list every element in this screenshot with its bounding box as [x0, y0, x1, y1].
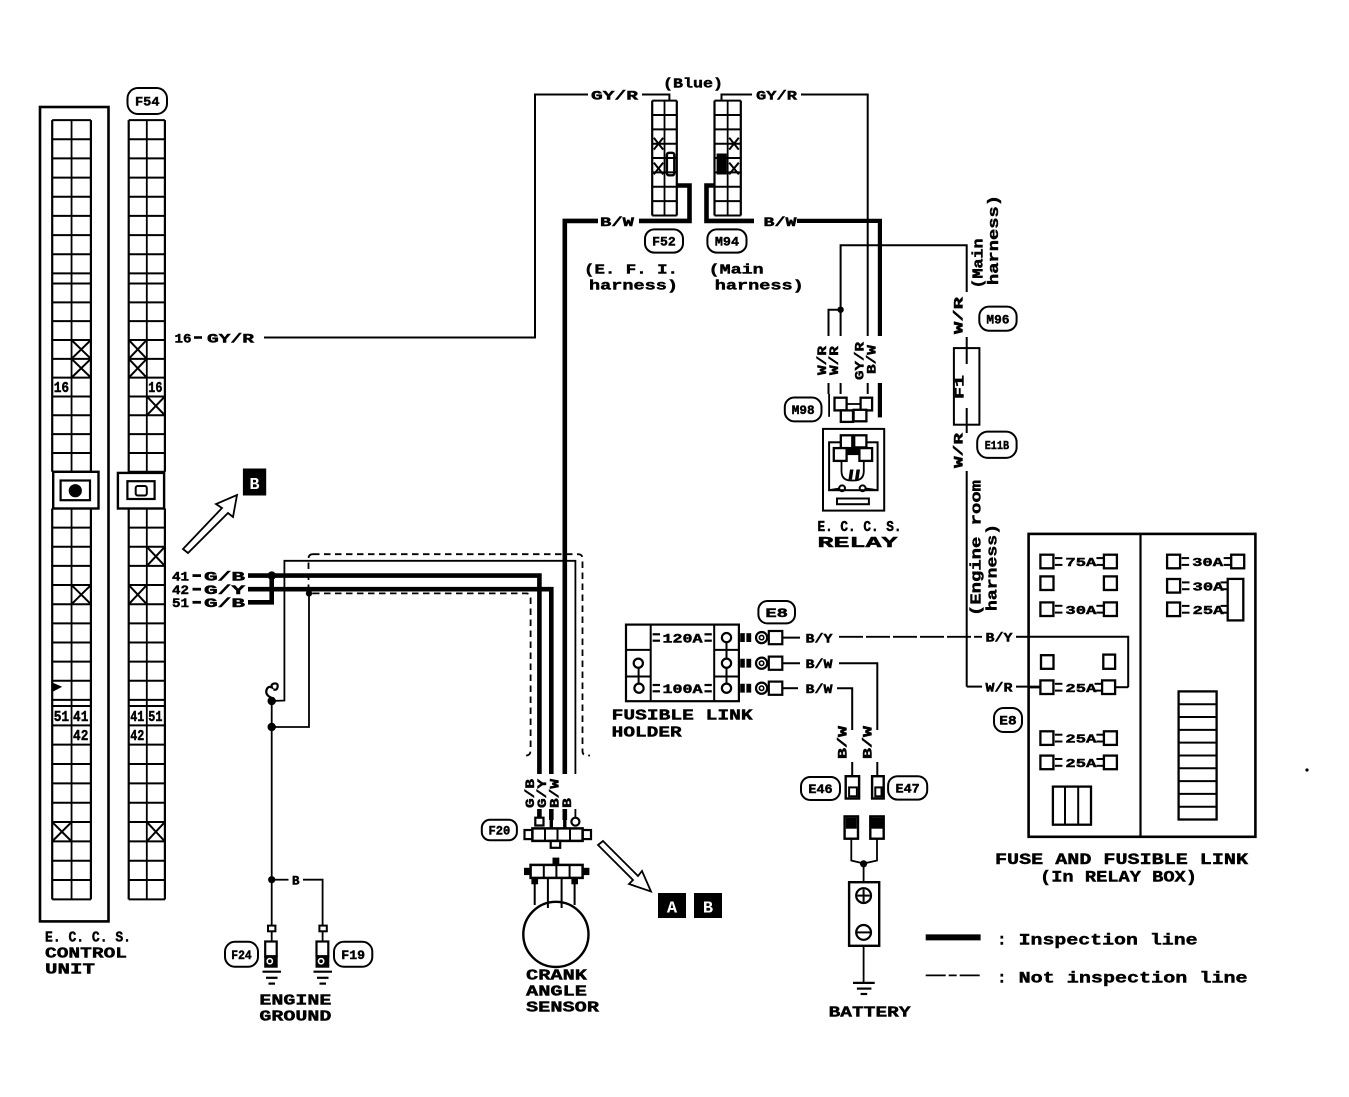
svg-text:E46: E46 [808, 783, 832, 797]
svg-text:B/Y: B/Y [986, 632, 1014, 646]
svg-text:100A: 100A [663, 683, 704, 697]
svg-text:harness): harness) [715, 278, 804, 294]
wire to engine ground vertical [271, 701, 273, 880]
shielded harness dashed tube inner [313, 593, 531, 755]
svg-text:F52: F52 [652, 235, 676, 250]
svg-text:W/R: W/R [953, 432, 967, 468]
shielded harness dashed tube left cap [309, 554, 314, 593]
wire W/R no2 from M98 up to F1 [841, 245, 967, 394]
svg-text:B: B [703, 900, 713, 919]
svg-text:FUSIBLE LINK: FUSIBLE LINK [612, 708, 753, 725]
svg-text:F19: F19 [341, 949, 365, 963]
F54 connector pin X mark [130, 360, 146, 377]
wire GY/R into F52 top [642, 95, 669, 101]
relay top pins [841, 435, 853, 448]
junction dot W/R [837, 307, 843, 313]
svg-text:W/R: W/R [953, 296, 967, 334]
svg-text:CONTROL: CONTROL [45, 946, 127, 963]
junction dot pins 41-51 [268, 571, 276, 579]
connector E8 oval label lower [994, 708, 1022, 732]
svg-text::: : [997, 970, 1007, 988]
label W/R above F1 [959, 292, 974, 337]
svg-text:(Engine room: (Engine room [970, 480, 986, 616]
F24 terminal small square [268, 926, 275, 932]
svg-text:GROUND: GROUND [259, 1009, 331, 1026]
fuse box divider [1139, 534, 1141, 837]
connector F24 oval label [225, 942, 258, 967]
connector E47 oval label [888, 776, 927, 799]
svg-text:E. C. C. S.: E. C. C. S. [45, 930, 131, 947]
fuse pair squares [1040, 576, 1053, 590]
connector M96 oval label [979, 307, 1016, 331]
fusible link holder body [626, 625, 739, 702]
svg-text:GY/R: GY/R [591, 88, 638, 103]
svg-text:16: 16 [54, 381, 69, 397]
svg-text:B/W: B/W [806, 658, 834, 672]
vertical wire labels G/B G/Y B/W B [527, 774, 583, 809]
shielded harness dashed tube outer [313, 554, 590, 755]
svg-text:42: 42 [172, 584, 189, 598]
svg-text:BATTERY: BATTERY [829, 1005, 911, 1022]
F20 pin decorations [535, 818, 543, 826]
tall block right [1228, 579, 1244, 621]
F54 connector grid row lines [129, 119, 165, 121]
connector E11B oval label [977, 432, 1016, 458]
svg-text:B/W: B/W [764, 215, 797, 230]
svg-text:(Main: (Main [709, 262, 764, 278]
fuse sub-box [1029, 637, 1129, 688]
svg-text:GY/R: GY/R [756, 88, 797, 103]
fuse 25A in sub-box [1055, 683, 1063, 685]
vertical wire labels W/R W/R GY/R B/W above M98 [819, 336, 886, 383]
svg-text:UNIT: UNIT [45, 962, 95, 979]
F19 ground symbol [314, 971, 333, 973]
svg-text:A: A [667, 900, 678, 919]
stray dot artifact [1305, 768, 1308, 771]
crank angle sensor prongs [534, 878, 536, 905]
legend not-inspection line sample [926, 974, 981, 976]
F52 X marks [654, 138, 663, 150]
ECCS control unit connector pin X mark [73, 360, 90, 377]
svg-text:M98: M98 [792, 403, 815, 418]
three-cell component box [1053, 787, 1091, 825]
svg-text:(Blue): (Blue) [663, 77, 723, 93]
F54 connector pin X mark [148, 823, 164, 840]
svg-text:W/R: W/R [986, 682, 1014, 696]
svg-text:B/Y: B/Y [806, 632, 834, 646]
F54 connector pin X mark [148, 548, 164, 565]
shield drain wire [272, 593, 309, 727]
harness break squiggle [266, 683, 277, 698]
svg-text:F1: F1 [953, 375, 968, 399]
fuse 30A right-top [1182, 557, 1190, 559]
wire W/R no1 from M98 [829, 310, 841, 394]
F19 ground connector symbol [317, 942, 329, 957]
svg-text:RELAY: RELAY [818, 536, 899, 552]
svg-text:FUSE AND FUSIBLE LINK: FUSE AND FUSIBLE LINK [995, 851, 1249, 869]
wire B ground from sensor to engine ground [272, 561, 576, 818]
svg-text:W/R: W/R [828, 345, 842, 375]
fusible link 120A [653, 633, 660, 635]
svg-text:M96: M96 [986, 312, 1009, 327]
battery symbol [849, 882, 879, 946]
fuse 30A left [1055, 605, 1063, 607]
E8 terminal B/W upper [740, 659, 751, 668]
wire B/W to E47 [839, 663, 877, 730]
ECCS control unit connector grid vertical rails [51, 120, 53, 472]
wire battery to ground [863, 946, 865, 983]
crank angle sensor body circle [523, 902, 588, 967]
sub-box squares [1041, 655, 1054, 669]
svg-text:25A: 25A [1065, 682, 1097, 696]
svg-text::: : [997, 932, 1007, 950]
relay contact squares [834, 448, 847, 461]
svg-text:E8: E8 [765, 606, 788, 621]
wire GY/R from M94 to M98 [801, 95, 868, 395]
wire W/R from F1 down to fuse box [966, 425, 968, 435]
svg-text:30A: 30A [1065, 604, 1097, 618]
svg-text:B: B [292, 875, 300, 889]
svg-text:(Main: (Main [972, 239, 988, 289]
svg-text:30A: 30A [1193, 580, 1225, 594]
wire B/Y to fuse box [839, 636, 982, 638]
connector F52 oval label [645, 229, 683, 252]
M94 black slot mark [717, 154, 727, 175]
svg-text:F54: F54 [135, 95, 160, 110]
legend inspection line sample [926, 934, 981, 940]
view B arrow (open arrow) [183, 495, 237, 553]
svg-text:B/W: B/W [862, 725, 876, 759]
ECCS control unit connector pin X mark [73, 341, 90, 358]
relay bottom slot [837, 499, 869, 505]
E.C.C.S. relay body [823, 429, 884, 511]
wire B/W thick from M94 to M98 [797, 221, 880, 394]
F54 connector pin X mark [130, 341, 146, 358]
F54 connector grid vertical rails [128, 120, 130, 472]
fuse 25A right [1167, 603, 1180, 617]
svg-text:B/W: B/W [600, 215, 634, 230]
svg-text:51: 51 [148, 710, 162, 726]
E8 terminal B/Y [740, 633, 751, 642]
holder right terminals [722, 633, 731, 642]
ECCS control unit connector grid row lines [52, 119, 91, 121]
svg-text:B: B [249, 476, 259, 495]
svg-text:E47: E47 [896, 782, 920, 796]
E8 terminal B/W lower [740, 684, 751, 693]
fuse F1 box [954, 348, 980, 425]
svg-text:G/B: G/B [204, 597, 246, 611]
svg-text:M94: M94 [715, 235, 739, 250]
M94 X marks [729, 138, 739, 150]
wire GY/R from M94 top [722, 95, 753, 101]
svg-text:51: 51 [172, 597, 189, 611]
label W/R below F1 [959, 433, 974, 471]
wire B/W to E46 [837, 688, 852, 730]
svg-text:41: 41 [73, 710, 89, 726]
battery-side connector of E46 [845, 816, 858, 838]
F24 ground connector symbol [265, 942, 277, 957]
svg-text:25A: 25A [1065, 757, 1097, 771]
F54 connector pin X mark [148, 397, 164, 414]
view A-B arrow (open arrow) [598, 841, 651, 892]
fuse 25A row3 [1055, 758, 1063, 760]
ladder block [1179, 691, 1217, 819]
battery-side connector of E47 [870, 816, 883, 838]
svg-text:16: 16 [175, 331, 192, 346]
svg-text:E. C. C. S.: E. C. C. S. [818, 520, 902, 536]
svg-text:ANGLE: ANGLE [526, 984, 587, 1001]
ECCS control unit connector pin X mark [53, 823, 70, 840]
connector M98 oval label [785, 398, 822, 422]
shield drain junction dots [268, 697, 276, 705]
wire G/B pin51 thick joining pin41 [248, 576, 272, 603]
svg-text:E8: E8 [999, 715, 1016, 729]
view A black label box [658, 893, 686, 918]
E.C.C.S. control unit outline box [40, 107, 109, 921]
svg-text:30A: 30A [1192, 556, 1224, 570]
svg-text:G/B: G/B [204, 570, 246, 584]
connector F52 grid [651, 101, 653, 216]
view B black label box near sensor [694, 893, 722, 918]
M94 bottom pin B/W thick wire [707, 186, 755, 221]
svg-text:41: 41 [130, 710, 144, 726]
connector E47 symbol [876, 770, 878, 776]
svg-text:Not inspection line: Not inspection line [1019, 970, 1248, 988]
svg-text:HOLDER: HOLDER [612, 724, 682, 741]
connector E46 symbol [851, 770, 853, 776]
svg-text:SENSOR: SENSOR [526, 1000, 599, 1017]
connector F54 oval label [128, 88, 168, 114]
ECCS control unit socket symbol [53, 472, 98, 509]
svg-text:25A: 25A [1193, 604, 1225, 618]
svg-text:41: 41 [172, 570, 189, 584]
svg-text:B/W: B/W [806, 683, 834, 697]
view B black label box [243, 469, 266, 496]
svg-text:42: 42 [130, 729, 144, 745]
shield connection dot [306, 590, 312, 596]
F19 terminal small square [319, 926, 326, 932]
ECCS control unit connector small arrow mark [53, 683, 63, 692]
svg-text:Inspection line: Inspection line [1019, 932, 1198, 950]
connector F20 oval label [482, 820, 517, 841]
svg-text:(E. F. I.: (E. F. I. [584, 262, 678, 278]
F54 socket symbol [118, 473, 164, 509]
svg-text:120A: 120A [663, 632, 704, 646]
svg-text:ENGINE: ENGINE [259, 993, 331, 1010]
svg-text:25A: 25A [1065, 733, 1097, 747]
F52 bottom pin B/W thick wire [639, 186, 690, 221]
svg-text:harness): harness) [987, 195, 1003, 285]
svg-text:(In RELAY BOX): (In RELAY BOX) [1040, 869, 1197, 887]
wire B link between grounds [275, 879, 289, 881]
F52 slot mark [667, 153, 674, 176]
fuse 30A right-mid [1167, 579, 1180, 593]
wires from connectors to battery junction [851, 839, 863, 864]
battery ground symbol [853, 982, 875, 984]
connector F19 oval label [334, 942, 372, 967]
connector E46 oval label [801, 777, 840, 800]
crank angle sensor connector bar [553, 858, 560, 865]
relay coil [842, 461, 864, 481]
wire G/B pin41 thick to crank sensor [248, 576, 539, 818]
wire to F24 ground connector [271, 880, 273, 926]
fuse 75A [1055, 557, 1063, 559]
svg-text:B/W: B/W [866, 344, 880, 374]
junction dot at B label [268, 876, 275, 883]
fuse and fusible link box outline [1029, 534, 1256, 837]
junction dot above battery [860, 860, 867, 867]
svg-text:51: 51 [54, 710, 70, 726]
svg-text:16: 16 [148, 381, 162, 397]
ECCS control unit connector pin X mark [73, 586, 90, 603]
svg-text:F20: F20 [488, 825, 510, 839]
svg-text:F24: F24 [231, 949, 252, 963]
svg-text:E11B: E11B [985, 439, 1009, 453]
svg-text:42: 42 [73, 729, 88, 745]
svg-text:GY/R: GY/R [207, 331, 254, 346]
F24 ground symbol [263, 971, 282, 973]
connector E8 oval label [758, 601, 795, 623]
svg-text:75A: 75A [1065, 556, 1097, 570]
wire GY/R from ECCS pin16 to F52 [264, 95, 588, 338]
relay terminal circles [829, 489, 839, 491]
F54 connector pin X mark [130, 586, 146, 603]
svg-text:harness): harness) [589, 278, 678, 294]
svg-text:CRANK: CRANK [526, 968, 587, 985]
F20 connector body [532, 828, 582, 841]
wire G/Y pin42 thick to crank sensor [248, 589, 551, 820]
connector M94 oval label [707, 229, 746, 252]
connector M98 symbol [828, 394, 830, 417]
fuse 25A row2 [1055, 734, 1063, 736]
holder left terminals [634, 659, 643, 668]
svg-text:G/Y: G/Y [204, 584, 246, 598]
svg-text:harness): harness) [986, 524, 1002, 611]
connector M94 grid [713, 101, 715, 216]
svg-text:B: B [561, 797, 575, 808]
svg-text:B/W: B/W [837, 725, 851, 759]
wire B/W thick from F52 down to crank sensor [565, 221, 598, 820]
fusible link 100A [653, 684, 660, 686]
